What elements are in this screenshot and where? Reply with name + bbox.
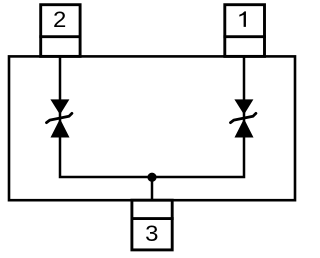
svg-text:2: 2: [53, 7, 66, 32]
svg-text:3: 3: [145, 221, 158, 246]
